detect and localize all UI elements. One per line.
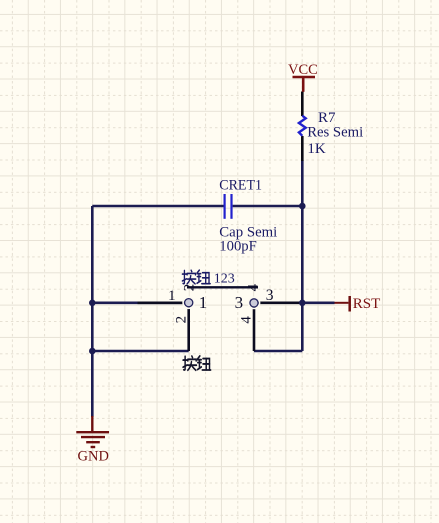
svg-text:100pF: 100pF bbox=[219, 239, 256, 255]
wire: pin1 row from left vertical bbox=[92, 301, 184, 304]
switch S1 designator hanzi 按 bbox=[182, 270, 195, 284]
capacitor CRET1 plates bbox=[224, 194, 226, 219]
switch S1 pin3 line bbox=[258, 301, 302, 304]
switch S1 pin1 line bbox=[138, 301, 185, 304]
wire: RST row navy segment bbox=[302, 301, 334, 304]
switch S1 contact left bbox=[183, 297, 194, 308]
RST port bbox=[335, 296, 381, 312]
svg-text:3: 3 bbox=[266, 287, 274, 304]
svg-text:2: 2 bbox=[173, 316, 189, 324]
svg-text:R7: R7 bbox=[318, 110, 336, 126]
GND power port bbox=[76, 416, 109, 464]
switch S1 comment hanzi 按 bbox=[183, 356, 196, 370]
wire: bottom loop left bbox=[92, 350, 188, 353]
svg-text:3: 3 bbox=[235, 293, 244, 312]
svg-text:Res Semi: Res Semi bbox=[307, 125, 363, 141]
wire: left vertical bbox=[91, 206, 94, 417]
svg-text:1: 1 bbox=[199, 293, 208, 312]
wire: bottom loop right bbox=[254, 350, 302, 353]
svg-text:4: 4 bbox=[238, 316, 254, 324]
resistor R7 pins bbox=[301, 92, 304, 117]
wire: right vertical (resistor to bottom corner) bbox=[301, 160, 304, 351]
svg-text:CRET1: CRET1 bbox=[219, 177, 262, 193]
svg-text:2: 2 bbox=[181, 284, 197, 292]
svg-text:123: 123 bbox=[214, 272, 235, 287]
svg-text:4: 4 bbox=[245, 283, 261, 291]
svg-text:1: 1 bbox=[168, 287, 176, 304]
switch S1 contact right bbox=[248, 297, 259, 308]
svg-text:GND: GND bbox=[78, 448, 109, 464]
switch S1 comment hanzi 钮 bbox=[198, 356, 211, 370]
junction at right vertical / RST row bbox=[299, 300, 306, 307]
svg-text:1K: 1K bbox=[307, 141, 326, 157]
switch S1 pin4 line bbox=[253, 307, 256, 351]
wire: cap row horizontal right segment bbox=[233, 205, 303, 208]
switch S1 actuator bar bbox=[187, 286, 258, 288]
svg-text:VCC: VCC bbox=[288, 62, 318, 78]
svg-text:RST: RST bbox=[353, 296, 381, 312]
resistor R7 zigzag bbox=[299, 116, 306, 136]
switch S1 pin2 line bbox=[187, 307, 190, 351]
wire: cap row horizontal left segment bbox=[92, 205, 223, 208]
junction at cap/right vertical bbox=[299, 203, 306, 210]
junction at left vertical / bottom loop bbox=[89, 348, 96, 355]
switch S1 designator hanzi 钮 bbox=[197, 270, 210, 284]
junction at left vertical / pin1 row bbox=[89, 300, 96, 307]
VCC power port bbox=[288, 62, 318, 92]
